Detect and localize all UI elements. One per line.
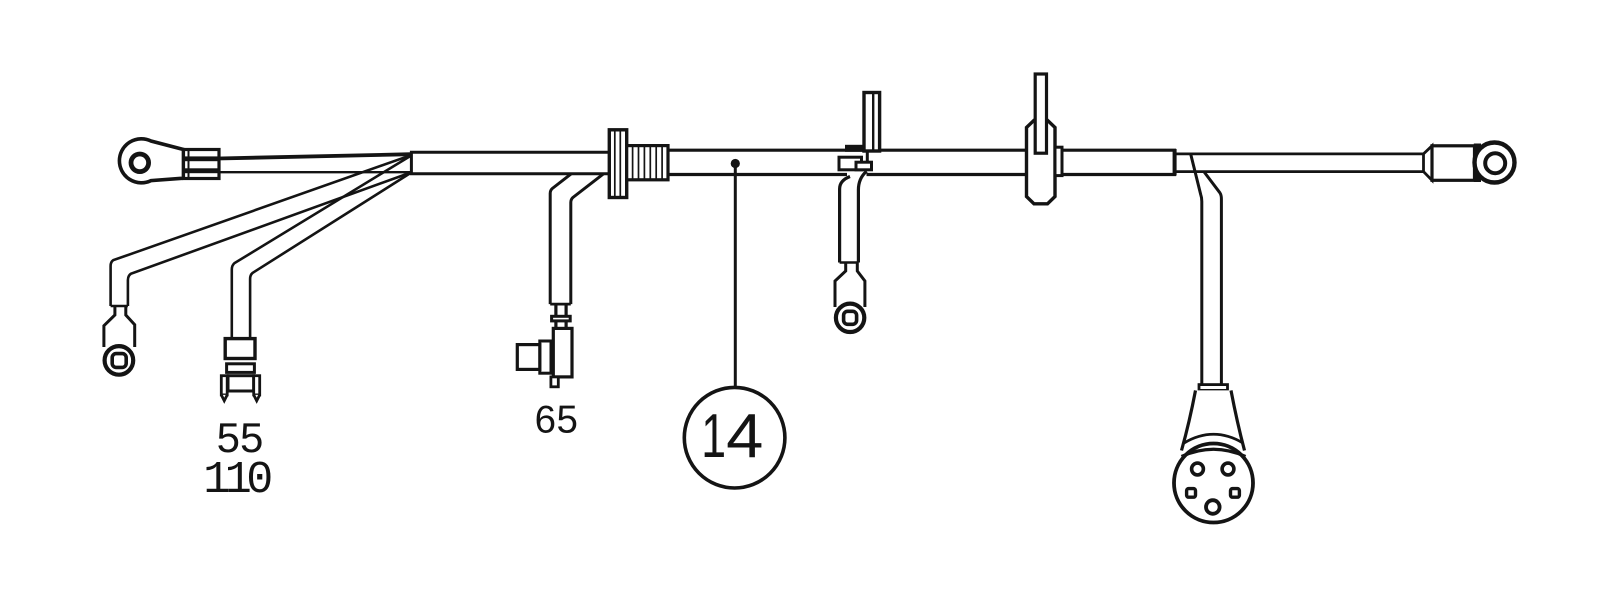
harness main tube right section	[666, 150, 1175, 174]
bracket foot over harness	[845, 145, 867, 152]
round connector bell housing	[1182, 390, 1245, 450]
lower-left terminal neck and body	[104, 306, 115, 347]
wire from left ring terminal to harness	[218, 154, 411, 158]
grommet flange	[609, 130, 626, 198]
connector 55/110 left latch	[221, 376, 227, 395]
wire branch to round connector, right edge	[1204, 172, 1222, 385]
left ring terminal hole	[131, 154, 149, 172]
bracket clip under harness	[839, 157, 862, 170]
callout leader dot	[731, 159, 740, 168]
svg-text:4: 4	[726, 401, 763, 470]
bracket post	[864, 93, 880, 152]
round connector face	[1174, 444, 1253, 523]
connector 55/110 right latch	[254, 376, 260, 395]
harness section break	[866, 151, 869, 164]
svg-text:1: 1	[701, 402, 726, 471]
mid terminal neck and body	[835, 263, 846, 308]
right terminal entry taper	[1424, 146, 1433, 181]
mid ring terminal ring	[836, 304, 864, 332]
wire to right terminal bottom	[1176, 170, 1424, 173]
cable clamp body	[1027, 120, 1056, 204]
right terminal dark band	[1474, 144, 1481, 183]
svg-text:110: 110	[203, 455, 271, 506]
svg-text:55: 55	[217, 414, 264, 461]
connector 55/110 middle band	[227, 364, 255, 373]
wire branch A lower line	[128, 173, 411, 306]
connector 55/110 lower box	[228, 376, 254, 391]
connector 65 body	[553, 328, 572, 377]
callout circle 14	[684, 387, 785, 488]
connector 65 side collar	[540, 341, 551, 373]
right terminal barrel	[1432, 146, 1475, 181]
svg-text:65: 65	[535, 399, 579, 442]
connector 55/110 top box	[225, 339, 255, 359]
cable clamp strap	[1035, 74, 1046, 153]
harness main tube left section	[411, 152, 670, 174]
connector 65 neck	[554, 304, 557, 328]
round connector pin left square	[1187, 489, 1196, 498]
callout leader line	[734, 165, 737, 388]
mid terminal sleeve end	[840, 261, 859, 264]
callout label 14	[701, 401, 763, 471]
connector 65 side barrel	[517, 345, 540, 370]
wire branch to mid ring terminal, left edge	[840, 177, 850, 263]
grommet ribs	[627, 146, 668, 180]
right ring terminal hole	[1485, 153, 1505, 173]
wire branch to connector 65, left edge	[550, 174, 571, 304]
lower-left ring terminal ring	[105, 346, 134, 375]
wire branch B upper line to connector 55/110	[232, 156, 411, 339]
connector 65 bottom tab	[551, 377, 558, 387]
round connector collar arc	[1184, 434, 1243, 443]
cable clamp right collar	[1055, 147, 1062, 175]
round connector pin top-left	[1192, 463, 1204, 475]
harness tube end cap	[1173, 149, 1177, 176]
wire branch to mid ring terminal, right edge	[858, 171, 866, 262]
right ring terminal ring	[1475, 143, 1515, 183]
round connector pin right square	[1231, 489, 1240, 498]
round connector pin top-right	[1222, 463, 1234, 475]
wire branch A upper line to lower-left ring terminal	[111, 155, 411, 306]
left ring terminal body	[119, 139, 183, 183]
round connector pin bottom	[1206, 500, 1220, 514]
lower-left ring terminal hole	[112, 354, 126, 368]
mid ring terminal hole	[844, 311, 857, 324]
lower-left terminal sleeve end	[111, 305, 128, 308]
round connector collar band	[1199, 385, 1228, 391]
wire branch B lower line	[250, 173, 410, 339]
left terminal crimp barrel	[184, 150, 220, 179]
sleeve end on branch 65	[550, 303, 571, 306]
wire to right terminal top	[1176, 152, 1424, 155]
wire branch to connector 65, right edge	[571, 174, 604, 304]
wire branch to round connector, left edge	[1191, 155, 1202, 385]
